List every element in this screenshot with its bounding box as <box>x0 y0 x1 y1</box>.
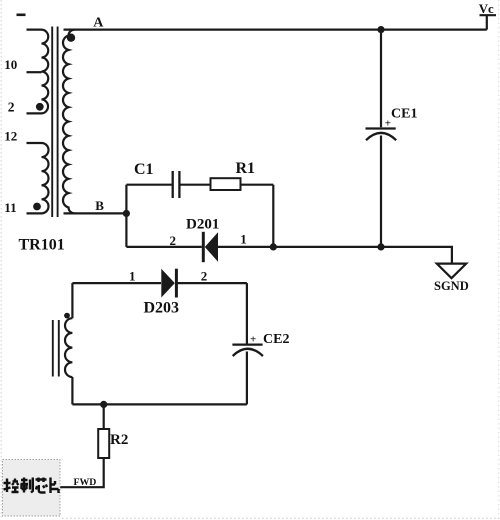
svg-text:Vc: Vc <box>479 2 494 16</box>
junction dot loop right / bottom rail <box>270 243 277 250</box>
scan border bottom edge <box>62 517 500 519</box>
capacitor C1 <box>173 171 180 198</box>
capacitor CE2 <box>232 343 262 345</box>
svg-text:CE1: CE1 <box>391 107 417 122</box>
svg-text:SGND: SGND <box>434 279 469 293</box>
wire loop top left segment <box>126 184 171 186</box>
label 控制芯片 (control chip, drawn strokes) <box>4 478 59 494</box>
Vc terminal <box>480 15 497 29</box>
svg-text:FWD: FWD <box>74 477 97 488</box>
char 芯 <box>36 478 47 483</box>
wire C1 to R1 <box>181 184 211 186</box>
auxiliary core <box>53 320 59 377</box>
svg-text:C1: C1 <box>134 161 154 178</box>
top-left dash mark <box>17 14 26 17</box>
svg-text:+: + <box>250 334 256 346</box>
wire bottom rail left (to D201) <box>126 246 201 248</box>
svg-text:2: 2 <box>8 99 15 114</box>
wire R2 upper <box>103 404 105 429</box>
svg-text:D203: D203 <box>144 300 180 317</box>
wire loop right vertical <box>272 185 274 247</box>
wire lower loop left vertical lower <box>71 377 73 404</box>
wire lower loop top right <box>178 282 247 284</box>
svg-text:10: 10 <box>4 57 17 72</box>
svg-text:R2: R2 <box>110 432 128 448</box>
junction dot R2 tap <box>100 401 107 408</box>
wire loop left vertical <box>125 185 127 247</box>
svg-text:A: A <box>93 16 104 31</box>
char 片 <box>51 478 59 494</box>
TR101 primary winding lower (pins 12,11) <box>27 143 49 213</box>
wire R2 lower + FWD wire <box>60 458 104 487</box>
svg-text:D201: D201 <box>186 217 219 233</box>
junction dot B <box>123 210 130 217</box>
diode D203 <box>161 269 175 298</box>
diode D201 <box>202 232 205 262</box>
svg-text:12: 12 <box>4 128 17 143</box>
svg-text:1: 1 <box>129 268 136 283</box>
svg-text:2: 2 <box>170 233 177 248</box>
wire lower loop top left <box>72 282 161 284</box>
svg-text:1: 1 <box>240 232 247 247</box>
wire R1 to corner <box>241 184 274 186</box>
svg-text:2: 2 <box>201 268 208 283</box>
junction dot CE1 / bottom rail <box>377 243 384 250</box>
wire bottom rail right + SGND drop <box>218 247 452 263</box>
resistor R2 <box>98 429 109 458</box>
pin 10 tap wire <box>27 71 42 73</box>
polarity dot pin 11 <box>33 203 41 211</box>
char 控 <box>4 479 11 493</box>
transformer TR101 core <box>52 27 57 218</box>
TR101 primary winding upper (pins top,10,2) <box>27 30 49 114</box>
wire CE1 upper <box>380 30 382 128</box>
wire lower loop right vertical upper <box>246 283 248 343</box>
svg-text:CE2: CE2 <box>263 332 289 347</box>
polarity dot pin 2 <box>36 103 44 111</box>
svg-text:B: B <box>95 198 104 213</box>
svg-text:R1: R1 <box>236 160 256 177</box>
wire lower loop bottom rail <box>72 403 247 405</box>
svg-text:11: 11 <box>4 200 16 215</box>
wire node B <box>64 212 127 214</box>
polarity dot auxiliary winding <box>64 313 70 319</box>
polarity dot secondary top <box>67 34 75 42</box>
char 制 <box>21 478 29 493</box>
junction dot A/CE1 <box>377 26 384 33</box>
wire lower loop left vertical upper <box>71 283 73 318</box>
capacitor CE1 <box>366 127 396 129</box>
scan border left edge <box>0 0 2 520</box>
wire CE1 lower <box>380 136 382 247</box>
TR101 secondary winding <box>63 30 75 214</box>
scan border right edge <box>498 0 500 520</box>
control chip box <box>3 460 61 517</box>
ground SGND symbol <box>437 264 466 279</box>
svg-text:TR101: TR101 <box>19 237 65 254</box>
wire lower loop right vertical lower <box>246 352 248 405</box>
resistor R1 <box>211 178 241 190</box>
wire node A (top rail) <box>64 29 487 31</box>
auxiliary winding <box>65 318 72 377</box>
